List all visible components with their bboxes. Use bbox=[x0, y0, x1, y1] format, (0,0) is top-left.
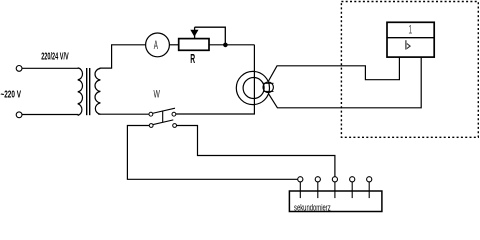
dashed enclosure box bbox=[341, 2, 478, 138]
transformer T1 secondary winding bbox=[95, 68, 100, 114]
stopwatch terminal 3 bbox=[332, 177, 337, 198]
stopwatch terminal 1 bbox=[298, 177, 303, 198]
wire: input bottom to primary bbox=[22, 114, 79, 116]
current transformer CT core inner ring bbox=[243, 78, 264, 99]
transformer T1 core bbox=[86, 68, 88, 115]
svg-text:220/24 V/V: 220/24 V/V bbox=[41, 51, 69, 62]
current transformer CT core outer ring bbox=[236, 71, 269, 104]
wire: switch pole 2 left to stopwatch terminal 1 bbox=[127, 126, 298, 180]
stopwatch box bbox=[289, 191, 382, 212]
wire: switch pole 2 right to stopwatch terminal 3 bbox=[176, 126, 335, 177]
svg-text:~220 V: ~220 V bbox=[1, 89, 22, 100]
wire: CT primary down and return to switch bbox=[176, 45, 255, 114]
relay K1 body bbox=[387, 22, 434, 57]
wire: secondary bottom to switch bbox=[98, 113, 149, 115]
rheostat R wiper arrow bbox=[190, 27, 198, 38]
wire: wiper to junction bbox=[195, 27, 226, 45]
svg-text:W: W bbox=[154, 89, 161, 101]
svg-text:1: 1 bbox=[408, 24, 412, 37]
terminal: mains input top bbox=[16, 66, 22, 72]
rheostat R body bbox=[179, 39, 209, 51]
switch W pole 2 bbox=[149, 120, 176, 128]
current transformer CT secondary winding bbox=[263, 82, 274, 92]
wire: rheostat to CT primary bbox=[209, 44, 254, 46]
wire: input top to primary bbox=[22, 67, 79, 69]
terminal: mains input bottom bbox=[16, 112, 22, 118]
switch W mechanical link bbox=[162, 111, 164, 123]
wire: CT secondary upper lead to relay pin 1 bbox=[269, 57, 400, 81]
label: I> overcurrent symbol bbox=[406, 40, 410, 49]
wire: secondary top up to ammeter bbox=[100, 45, 146, 68]
wire: CT secondary lower lead to relay pin 2 bbox=[269, 57, 422, 108]
transformer T1 primary winding bbox=[78, 68, 83, 116]
switch W pole 1 bbox=[149, 108, 176, 116]
wire: ammeter to rheostat bbox=[169, 44, 178, 46]
svg-text:A: A bbox=[154, 40, 158, 52]
junction dot bbox=[223, 43, 228, 48]
stopwatch terminal 2 bbox=[315, 177, 320, 198]
svg-text:R: R bbox=[190, 52, 195, 66]
stopwatch terminal 4 bbox=[350, 177, 355, 198]
stopwatch terminal 5 bbox=[367, 177, 372, 198]
svg-text:sekundomierz: sekundomierz bbox=[294, 202, 331, 212]
ammeter A1 bbox=[146, 33, 170, 57]
